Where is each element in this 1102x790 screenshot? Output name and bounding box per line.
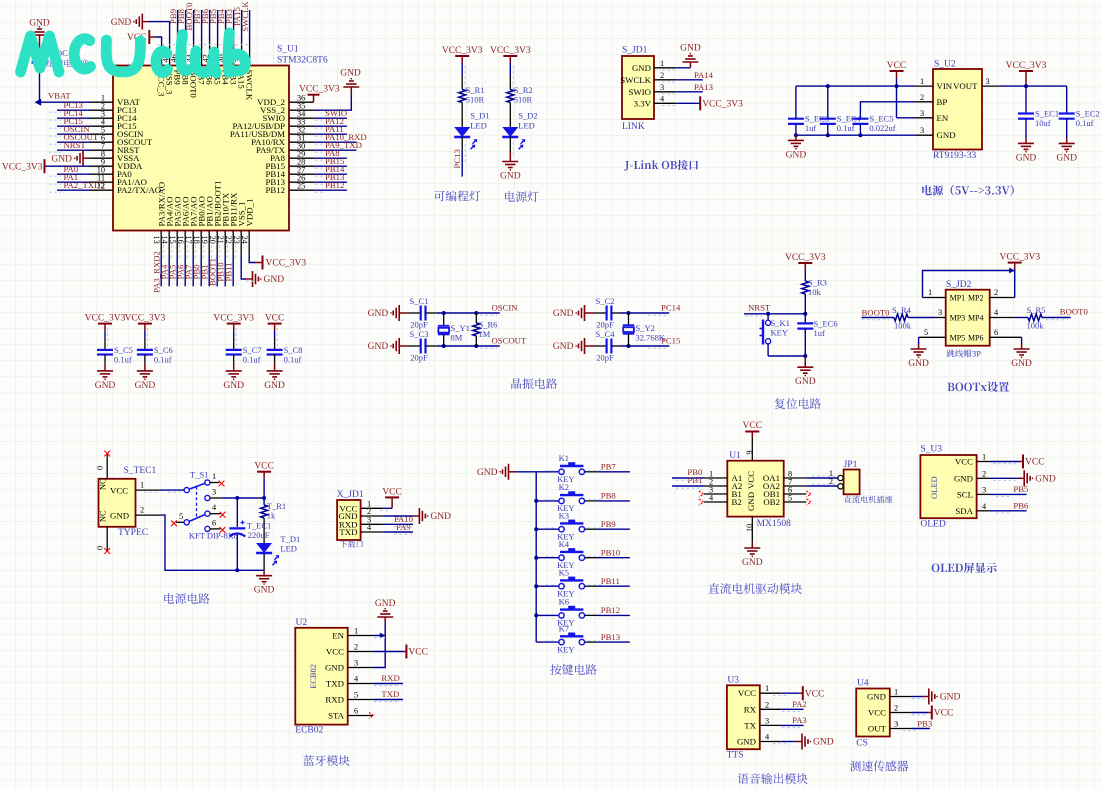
wire X_JD1 GND to ground [382,515,419,517]
caption J-Link OB接口 [624,160,698,171]
svg-text:MX1508: MX1508 [757,519,792,529]
svg-text:PA2_TXD2: PA2_TXD2 [64,180,105,190]
ground at S_C3 [368,338,400,354]
ground at S_C1 [368,305,400,321]
svg-text:RXD: RXD [381,673,399,683]
svg-text:10k: 10k [808,287,822,297]
U1 pin 19 PB1/AO [200,196,215,286]
U1 pin 48 VCC_3 [127,30,166,97]
power flag VCC at S_U2 input [887,61,907,78]
svg-text:VCC: VCC [110,486,128,496]
wire U2 EN GND to ground [373,617,385,668]
wire resistor to LED D1 [461,103,463,128]
U1 pin 44 BOOT0 [184,2,198,99]
wire VCC to resistor R1 [461,63,463,90]
svg-text:T_R1: T_R1 [267,501,286,511]
ground at S_JD2 pin 6 [1011,349,1032,369]
key rail vertical wire [534,472,538,642]
resistor S_R4 100k [862,305,935,331]
svg-text:5: 5 [924,328,928,337]
resistor S_R2 510R [507,85,533,105]
svg-text:6: 6 [994,328,998,337]
svg-text:EN: EN [937,113,949,123]
S_TEC1 pin 2 GND wire [136,506,265,571]
svg-text:T_S1: T_S1 [190,470,208,480]
ground at S_C2 [553,305,585,321]
svg-text:VCC: VCC [326,647,344,657]
svg-text:VCC: VCC [382,488,402,498]
svg-text:0.1uf: 0.1uf [243,354,261,364]
svg-text:MP2: MP2 [968,294,984,303]
capacitor S_EC2 0.1uf [1059,86,1100,143]
svg-text:S_C8: S_C8 [284,345,303,355]
svg-text:S_R3: S_R3 [808,278,827,288]
svg-text:GND: GND [368,309,389,319]
X_JD1 pin 2 GND [338,507,382,521]
caption 蓝牙模块 [303,755,349,766]
svg-text:MP4: MP4 [968,314,984,323]
wire VBAT from battery to U1 pin 1 [35,63,90,106]
svg-text:PB8: PB8 [601,491,617,501]
caption 复位电路 [775,398,821,409]
U1 pin 25 PB12 [265,180,347,195]
svg-text:GND: GND [1011,359,1032,369]
svg-text:100k: 100k [894,321,912,331]
power flag VCC_3V3 for LED D2 [490,46,531,63]
svg-text:OSCIN: OSCIN [492,303,519,313]
svg-text:25: 25 [297,182,305,191]
wire RXD from U2 TXD [373,673,403,684]
ground at S_JD2 pin 5 [908,349,929,369]
caption 语音输出模块 [738,773,808,784]
S_U3 pin 3 SCL [957,485,990,499]
switch K1 KEY [536,453,584,484]
svg-text:1: 1 [660,59,664,68]
svg-text:GND: GND [368,342,389,352]
svg-text:S_R1: S_R1 [466,85,485,95]
X_JD1 pin 4 TXD [339,523,382,537]
svg-text:NC: NC [99,510,108,522]
svg-text:S_R2: S_R2 [514,85,533,95]
svg-text:OLED: OLED [920,520,945,530]
svg-text:GND: GND [1035,475,1056,485]
svg-text:T_EC1: T_EC1 [247,521,272,531]
svg-text:PB9: PB9 [601,519,616,529]
svg-text:S_C5: S_C5 [114,345,133,355]
switch K7 KEY [536,623,584,654]
svg-text:S_U3: S_U3 [920,445,942,455]
svg-text:BOOT0: BOOT0 [1060,307,1089,317]
ground under U1 [742,548,763,568]
svg-text:S_D1: S_D1 [470,111,489,121]
svg-text:TX: TX [744,720,756,730]
caption 晶振电路 [511,378,557,389]
svg-text:GND: GND [813,738,834,748]
svg-text:3: 3 [765,716,769,725]
svg-text:GND: GND [553,309,574,319]
svg-text:PB12: PB12 [265,185,285,195]
svg-text:GND: GND [940,693,961,703]
wire 3.3V to power flag VCC_3V3 [676,96,743,110]
svg-text:VCC: VCC [254,462,274,472]
S_U2 pin 3 EN [916,109,949,123]
S_U2 pin 3 VOUT [953,77,999,91]
U1 pin 35 VSS_2 [260,69,361,116]
svg-text:S_U2: S_U2 [934,60,956,70]
power flag VCC_3V3 at S_JD2 [1000,253,1041,271]
svg-text:1: 1 [894,688,898,697]
U1 pin 5 OB2 [763,494,806,508]
power flag VCC_3V3 for LED D1 [442,46,483,63]
svg-text:K3: K3 [559,510,569,520]
svg-text:VCC_3V3: VCC_3V3 [125,314,166,324]
svg-text:15: 15 [168,236,177,244]
svg-text:TTS: TTS [727,751,744,761]
U1 pin 15 PA5/AO [168,197,183,287]
svg-text:0.022uf: 0.022uf [869,123,895,133]
mcu U1 STM32C8T6 body [113,45,328,231]
capacitor S_C3 20pF [399,329,428,363]
svg-text:GND: GND [430,512,451,522]
svg-text:S_JD2: S_JD2 [946,280,972,290]
wire OSCOUT [426,336,527,349]
capacitor S_EC5 0.022uf [852,114,895,136]
svg-text:3: 3 [894,720,898,729]
svg-text:GND: GND [110,511,129,521]
ground under S_C7 [223,371,244,391]
svg-text:VCC: VCC [1025,458,1045,468]
svg-text:S_EC6: S_EC6 [814,319,838,329]
svg-text:OUT: OUT [868,724,887,734]
svg-text:19: 19 [200,236,209,244]
svg-text:GND: GND [795,377,816,387]
capacitor S_C6 0.1uf [137,331,173,371]
U1 pin 14 PA4/AO [160,197,175,287]
sensor U4 CS body [856,679,890,749]
U1 pin 12 PA2/TX/AO [57,180,161,195]
wire resistor to LED D2 [509,103,511,128]
svg-text:5: 5 [354,691,358,700]
U1 pin 39 PB3 [224,9,238,85]
svg-text:VBAT: VBAT [48,91,71,101]
U1 pin 4 B2 [704,494,742,508]
U4 pin 3 OUT [868,720,911,734]
U1 pin 10 PA0 [57,164,132,179]
svg-text:GND: GND [746,492,756,511]
ground at X_JD1 [419,508,451,524]
svg-text:21: 21 [216,236,225,244]
regulator S_U2 RT9193-33 body [933,60,982,162]
svg-text:CS: CS [856,739,868,749]
capacitor S_C1 20pF [399,296,428,330]
resistor S_R3 10k [802,270,827,314]
wire PB10 from K4 [546,547,630,557]
X_JD1 pin 1 VCC [339,500,382,514]
svg-text:S_Y2: S_Y2 [636,323,655,333]
wire LED cathode to ground [509,137,511,162]
svg-text:6: 6 [354,707,358,716]
connector JP1 body [838,460,860,494]
wire ground to key rail [509,471,537,473]
svg-text:2: 2 [765,700,769,709]
svg-text:TXD: TXD [339,527,357,537]
svg-text:JP1: JP1 [844,460,858,470]
wire PA10 from X_JD1 RXD [382,514,413,524]
U1 pin 28 PB15 [265,156,347,171]
svg-text:VCC_3V3: VCC_3V3 [2,162,43,172]
S_JD1 pin 1 GND [632,59,676,73]
U1 pin 29 PA8 [270,148,347,163]
svg-text:VCC_3V3: VCC_3V3 [785,253,826,263]
U1 pin 4 PC15 [57,116,137,131]
U2 pin 2 VCC [326,643,373,657]
svg-text:VCC_3V3: VCC_3V3 [490,46,531,56]
U1 pin 22 PB11/RX [224,192,239,286]
U1 pin 1 VBAT [48,91,141,108]
wire PB0 to U1 A1 [672,467,704,478]
svg-text:PB5: PB5 [1013,484,1028,494]
power flag VCC_3V3 above S_R3 [785,253,826,270]
U4 pin 1 GND [867,688,911,702]
svg-text:S_EC5: S_EC5 [869,114,893,124]
caption 电源电路 [164,593,209,604]
U1 pin 31 PA10/RX [251,132,367,147]
svg-text:1k: 1k [267,511,276,521]
U1 pin 45 PB8 [176,8,190,85]
svg-text:3: 3 [354,659,358,668]
svg-text:B2: B2 [732,497,742,507]
svg-text:0.1uf: 0.1uf [154,354,172,364]
svg-text:STM32C8T6: STM32C8T6 [277,56,328,66]
U1 pin 6 OB1 [763,486,806,500]
wire bottom rail to ground [263,570,265,575]
T_S1 pin 5 no connect [171,512,184,526]
S_U3 pin 2 GND [954,469,989,483]
svg-text:PB13: PB13 [601,632,620,642]
U1 pin 26 PB13 [265,172,347,187]
svg-text:1: 1 [212,472,216,481]
ground above U2 [375,599,396,617]
junction dots input caps [794,84,863,137]
caption 按键电路 [550,664,597,675]
U1 pin 43 PB7 [192,8,206,85]
svg-text:3: 3 [986,77,990,86]
svg-text:SWCLK: SWCLK [240,1,250,32]
svg-text:K2: K2 [559,482,569,492]
svg-text:EN: EN [332,631,344,641]
svg-text:3: 3 [920,126,924,135]
crystal S_Y1 8M [438,313,470,346]
S_TEC1 bottom NC pin [96,527,111,554]
power flag VCC at X_JD1 [382,488,402,509]
U1 pin 11 PA1/AO [57,172,147,187]
svg-text:STA: STA [328,711,345,721]
capacitor S_C5 0.1uf [97,331,133,371]
U1 pin 47 VSS_3 [111,14,175,95]
ground under S_C5 [95,371,116,391]
svg-text:VCC_3V3: VCC_3V3 [1006,61,1047,71]
U1 pin 17 PA7/AO [184,197,199,287]
svg-text:GND: GND [264,381,285,391]
svg-text:U4: U4 [857,679,869,689]
svg-text:TXD: TXD [381,689,399,699]
svg-text:GND: GND [95,381,116,391]
svg-text:MP5: MP5 [950,333,966,342]
svg-text:U2: U2 [296,618,308,628]
svg-text:GND: GND [632,63,651,73]
svg-text:S_C7: S_C7 [243,345,262,355]
svg-text:8M: 8M [451,333,463,343]
resistor S_R5 100k [1015,305,1089,331]
U3 pin 3 TX [744,716,780,730]
U1 pin 7 NRST [57,140,140,155]
svg-text:S_EC2: S_EC2 [1076,109,1100,119]
svg-text:VCC: VCC [805,689,825,699]
power flag VCC_3V3 at S_U2 output [1006,61,1047,78]
svg-text:220uF: 220uF [248,530,270,540]
wire VCC to VIN and EN [897,78,917,118]
U1 pin 24 VDD_1 [240,199,306,270]
U2 pin 4 TXD [326,675,373,689]
svg-text:18: 18 [192,236,201,244]
svg-text:X_JD1: X_JD1 [337,490,364,500]
svg-text:2: 2 [354,643,358,652]
svg-text:RT9193-33: RT9193-33 [933,151,976,161]
svg-text:5: 5 [788,494,792,503]
U1 OB2 no connect [807,499,812,505]
logo MCUclub [21,33,246,73]
svg-text:0.1uf: 0.1uf [114,354,132,364]
svg-text:22: 22 [224,236,233,244]
ground under LED S_D2 [500,162,521,182]
caption 可编程灯 [434,191,480,202]
svg-text:510R: 510R [514,95,533,105]
U1 pin 38 PA15 [232,7,246,89]
capacitor S_EC1 10uf [1018,86,1059,143]
svg-text:S_R5: S_R5 [1027,305,1046,315]
U1 pin 8 OA1 [763,470,806,484]
svg-text:S_R4: S_R4 [892,305,912,315]
wire PB5 from S_U3 SCL [989,484,1028,494]
wire BP to capacitor S_EC5 [860,102,916,119]
wire PC13 from LED cathode [452,137,462,177]
power flag VCC_3V3 above S_C5 [85,314,126,331]
wire S_U3 GND to ground [989,470,1056,486]
svg-text:GND: GND [477,468,498,478]
wire PB13 from K7 [546,632,630,642]
wire U3 VCC to power flag [781,686,825,700]
wire U4 GND to ground [911,689,961,705]
svg-text:S_C2: S_C2 [596,296,615,306]
svg-text:VIN: VIN [937,81,953,91]
U1 pin 27 PB14 [265,164,347,179]
power flag VCC_3V3 above S_C7 [213,314,254,331]
S_JD1 pin 2 SWCLK [620,71,676,85]
wire S_JD2 pin5 to ground [918,337,920,349]
U1 pin 5 OSCIN [57,124,144,139]
svg-text:LINK: LINK [622,122,645,132]
svg-text:VCC: VCC [887,61,907,71]
svg-text:0.1uf: 0.1uf [1076,118,1094,128]
svg-text:VCC: VCC [934,709,954,719]
svg-text:GND: GND [135,381,156,391]
svg-text:VCC: VCC [408,648,428,658]
wire S_K1 to ground rail [768,354,807,358]
svg-text:PB6: PB6 [1013,500,1029,510]
S_JD1 pin 3 SWIO [629,83,677,97]
wire NRST [744,303,807,316]
wire S_JD1 GND to ground [676,63,690,68]
svg-text:TYPEC: TYPEC [118,528,148,538]
ground under S_C6 [135,371,156,391]
svg-text:S_K1: S_K1 [771,318,790,328]
module U3 TTS body [727,676,760,761]
wire PB8 from K2 [546,491,630,501]
svg-text:16: 16 [176,236,185,244]
svg-text:T_D1: T_D1 [280,534,300,544]
svg-text:1uf: 1uf [805,123,817,133]
svg-text:10: 10 [745,524,754,532]
svg-text:VCC_3V3: VCC_3V3 [442,46,483,56]
U1 pin 30 PA9/TX [256,140,362,155]
U1 pin 16 PA6/AO [176,197,191,287]
T_S1 pin 1 no connect [210,472,224,486]
svg-text:0: 0 [96,546,105,550]
svg-text:GND: GND [786,150,807,160]
wire PA13 from S_JD1 pin 3 [676,82,713,92]
S_JD2 pins MP3 MP4 [934,308,1014,323]
power flag VCC of power circuit [254,462,274,479]
U1 B2 no connect [699,499,704,505]
svg-text:GND: GND [954,473,973,483]
svg-text:LED: LED [518,121,535,131]
capacitor S_C7 0.1uf [226,331,262,371]
ground under S_EC2 [1056,143,1077,163]
svg-text:2: 2 [660,71,664,80]
svg-text:PA9: PA9 [396,522,411,532]
module U2 ECB02 body [295,618,347,736]
U1 pin 34 SWIO [263,108,348,123]
svg-text:VCC_3V3: VCC_3V3 [85,314,126,324]
svg-text:20pF: 20pF [410,320,428,330]
S_JD2 pins MP1 MP2 [923,288,1015,303]
led S_D2 LED [502,111,537,150]
svg-text:20pF: 20pF [596,320,614,330]
svg-text:VCC_3V3: VCC_3V3 [213,314,254,324]
ground at S_JD1 pin 1 [680,44,701,63]
svg-text:GND: GND [553,342,574,352]
svg-text:GND: GND [500,172,521,182]
wire PA3 from U3 TX [781,715,807,725]
svg-text:PA13: PA13 [694,82,713,92]
led T_D1 LED [256,534,300,570]
switch T_S1 KFT DIP-8X8 [184,470,238,541]
capacitor S_C2 20pF [585,296,615,330]
wire PB9 from K3 [546,519,630,529]
U2 pin 3 GND [325,659,373,673]
svg-text:GND: GND [737,737,756,747]
T_S1 pin 3 wire to VCC rail [210,488,266,501]
svg-text:PB3: PB3 [917,718,932,728]
svg-text:S_C3: S_C3 [410,329,429,339]
wire PC14 [611,303,681,316]
wire PB1 to U1 A2 [672,475,704,486]
svg-text:SDA: SDA [955,506,973,516]
U1 pin 7 OA2 [763,478,806,492]
caption BOOTx设置 [948,382,1010,392]
svg-text:S_U1: S_U1 [277,45,299,55]
svg-text:U3: U3 [727,676,739,686]
